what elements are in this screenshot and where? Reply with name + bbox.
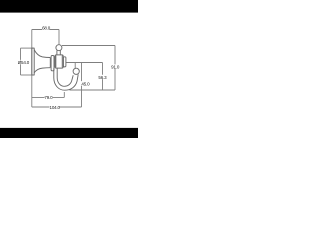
wire: 79.0 right tick up to hook bottom — [63, 92, 65, 97]
wire: D54 top stub — [21, 47, 34, 49]
cone bell bottom edge — [34, 68, 50, 73]
dimension 91.0 vertical line — [114, 46, 116, 91]
block right inner line — [61, 56, 63, 68]
top black bar — [0, 0, 138, 13]
dimension 79.0 bottom line — [32, 96, 65, 98]
neck right edge — [59, 50, 61, 55]
svg-text:91.0: 91.0 — [111, 65, 120, 70]
dimension D54 vertical bracket — [20, 48, 22, 75]
wire: extension at ball top going right — [62, 45, 115, 47]
mounting block — [55, 55, 63, 68]
wire: right extension of top dim down to ball top — [58, 30, 60, 45]
svg-text:79.0: 79.0 — [44, 95, 53, 100]
hook tip ball — [73, 68, 79, 74]
block left inner line — [55, 56, 57, 68]
wire: D54 bottom stub — [21, 74, 34, 76]
svg-text:45.0: 45.0 — [81, 82, 90, 87]
hook arm outer curve — [54, 68, 78, 90]
dimension 68.0 top line — [32, 29, 59, 31]
ball finial — [56, 45, 62, 51]
svg-text:104.0: 104.0 — [50, 105, 61, 110]
front cap — [63, 57, 66, 67]
dimension 45.0 vertical line — [81, 63, 83, 108]
cone end edge — [49, 58, 51, 68]
background — [0, 0, 138, 138]
wire: wall extension line — [31, 30, 33, 108]
hook arm inner curve — [57, 68, 73, 86]
cone bell top edge — [34, 50, 50, 58]
wire: extension at hook bottom going right — [70, 89, 116, 91]
dimension 104.0 bottom line — [32, 106, 82, 108]
svg-text:Ø54.0: Ø54.0 — [18, 60, 30, 65]
svg-text:56.3: 56.3 — [98, 75, 107, 80]
bottom black bar — [0, 128, 138, 138]
collar ring — [51, 56, 54, 71]
wire: extension from hook tip ball up — [74, 63, 76, 69]
wire: extension at hook front going right — [66, 62, 103, 64]
svg-text:68.0: 68.0 — [42, 25, 51, 30]
neck left edge — [56, 50, 58, 55]
dimension 56.3 vertical line — [102, 63, 104, 91]
flange (wall plate edge-on) — [32, 48, 34, 75]
